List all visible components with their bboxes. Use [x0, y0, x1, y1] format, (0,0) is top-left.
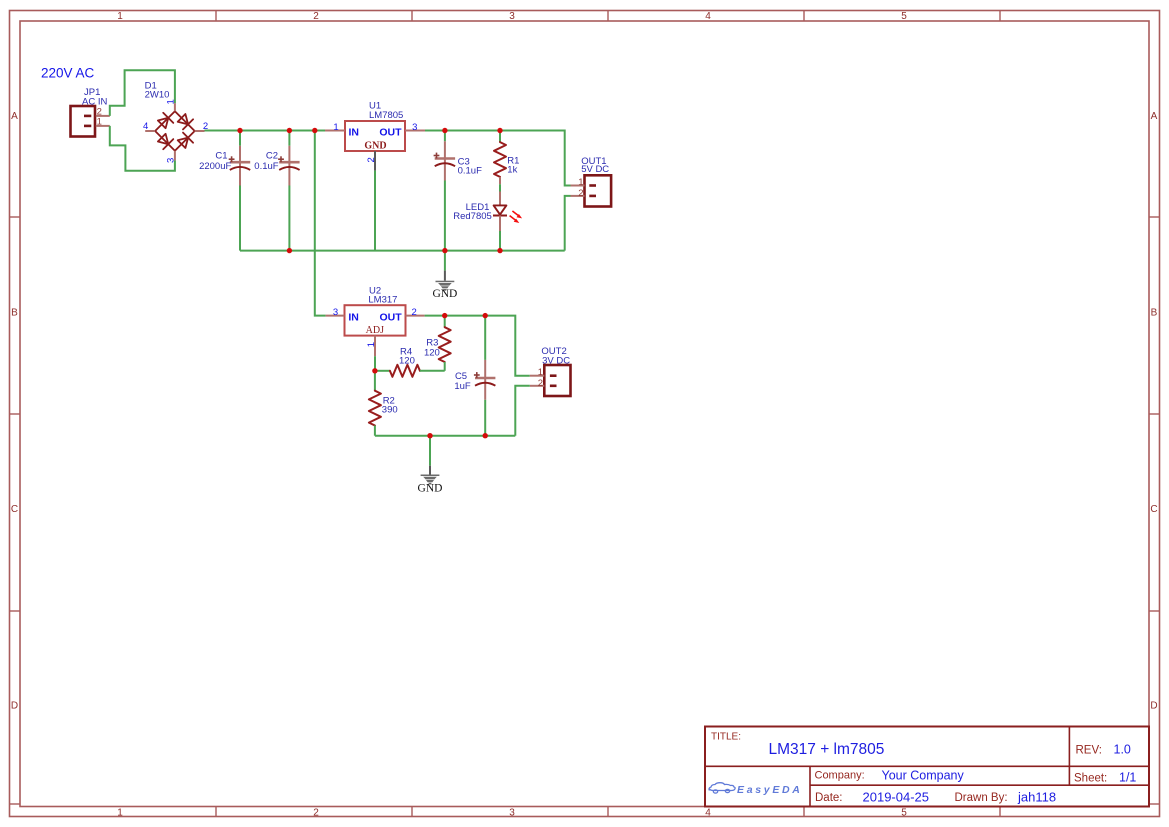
- svg-text:LM7805: LM7805: [369, 110, 403, 121]
- top ruler ticks: [216, 11, 1000, 22]
- title block logo cell divider: [809, 766, 811, 806]
- svg-text:1: 1: [578, 177, 583, 188]
- svg-text:TITLE:: TITLE:: [711, 731, 741, 742]
- wire OUT2 pin2 to ground rail 2: [515, 386, 530, 436]
- svg-text:ADJ: ADJ: [366, 325, 384, 336]
- svg-text:Sheet:: Sheet:: [1074, 772, 1107, 784]
- svg-text:1: 1: [117, 808, 123, 819]
- title block outer border: [705, 727, 1149, 807]
- wire JP1 pin1 to bridge pin3: [110, 126, 175, 171]
- regulator U2 LM317: [345, 305, 406, 336]
- title block rev column divider: [1068, 727, 1070, 786]
- D1 diode top-right (1 to 2): [178, 114, 188, 124]
- svg-text:2200uF: 2200uF: [199, 161, 231, 172]
- svg-text:2019-04-25: 2019-04-25: [863, 789, 930, 804]
- svg-text:1: 1: [117, 11, 123, 22]
- svg-text:LM317 + lm7805: LM317 + lm7805: [769, 741, 885, 758]
- D1 pin 1 stub: [174, 103, 176, 111]
- D1 diode bottom-right (3 to 2): [178, 138, 188, 148]
- EasyEDA logo cloud icon: [709, 783, 735, 793]
- wire OUT1 pin2 to ground rail: [565, 196, 571, 251]
- D1 pin 2 stub: [195, 130, 205, 132]
- svg-text:D: D: [11, 701, 18, 712]
- right ruler letters A-D: [1150, 111, 1157, 712]
- svg-text:IN: IN: [348, 311, 359, 323]
- svg-text:Your Company: Your Company: [882, 768, 965, 782]
- svg-text:120: 120: [399, 356, 415, 367]
- svg-text:C: C: [11, 504, 18, 515]
- connector OUT2 (3V DC): [530, 365, 571, 396]
- svg-text:1/1: 1/1: [1119, 770, 1136, 784]
- svg-text:220V AC: 220V AC: [41, 66, 95, 81]
- top ruler numbers 1-5: [117, 11, 907, 22]
- LED LED1 Red7805: [493, 192, 507, 251]
- D1 diode bottom-left (4 to 3): [158, 134, 168, 144]
- wire ground rail lower: [375, 435, 515, 437]
- U1 pin 2 lead (GND): [374, 151, 376, 171]
- D1 diode top-left (4 to 1): [158, 118, 168, 128]
- svg-text:OUT: OUT: [380, 311, 403, 323]
- svg-text:0.1uF: 0.1uF: [458, 165, 482, 176]
- svg-text:3V DC: 3V DC: [542, 356, 570, 367]
- svg-text:3: 3: [333, 307, 338, 318]
- D1 pin 4 stub: [145, 130, 155, 132]
- svg-text:Date:: Date:: [815, 792, 843, 804]
- connector JP1 (AC IN): [71, 106, 110, 137]
- svg-text:A: A: [11, 111, 18, 122]
- svg-text:4: 4: [143, 121, 148, 132]
- regulator U1 LM7805: [345, 121, 405, 151]
- svg-text:Drawn By:: Drawn By:: [955, 792, 1008, 804]
- svg-text:GND: GND: [432, 288, 457, 300]
- title block row divider 1: [705, 765, 1149, 767]
- svg-text:2: 2: [578, 188, 583, 199]
- resistor R1 1k: [494, 131, 506, 192]
- svg-text:0.1uF: 0.1uF: [254, 161, 278, 172]
- svg-text:4: 4: [705, 808, 711, 819]
- wire JP1 pin2 to bridge pin1: [110, 70, 175, 116]
- svg-text:Company:: Company:: [815, 770, 865, 782]
- junction dots overlay: [237, 128, 502, 439]
- svg-text:B: B: [11, 308, 18, 319]
- svg-text:2W10: 2W10: [145, 90, 170, 101]
- wire U1 pin2 to ground rail: [374, 171, 376, 251]
- svg-text:IN: IN: [349, 126, 360, 138]
- svg-text:1.0: 1.0: [1114, 743, 1131, 757]
- svg-text:2: 2: [313, 808, 319, 819]
- capacitor C2 0.1uF: [278, 131, 300, 251]
- svg-text:5: 5: [901, 11, 907, 22]
- svg-text:2: 2: [313, 11, 319, 22]
- wire R4 left stub: [375, 370, 390, 372]
- capacitor C5 1uF: [474, 316, 496, 436]
- U2 pin 3 lead: [326, 315, 345, 317]
- ground symbol GND lower: [429, 436, 431, 466]
- resistor R4 120: [390, 365, 420, 377]
- left ruler letters A-D: [11, 111, 18, 712]
- bridge rectifier D1 2W10: [155, 111, 195, 151]
- left ruler ticks: [10, 217, 21, 804]
- U1 pin 1 lead: [325, 130, 345, 132]
- svg-text:3: 3: [509, 808, 515, 819]
- svg-text:C: C: [1150, 504, 1157, 515]
- svg-text:5V DC: 5V DC: [581, 164, 609, 175]
- svg-text:1k: 1k: [507, 165, 517, 176]
- svg-text:LM317: LM317: [368, 294, 397, 305]
- wire bridge pin2 to U1 IN rail: [205, 130, 326, 132]
- right ruler ticks: [1149, 217, 1160, 804]
- bottom ruler ticks: [216, 807, 1000, 817]
- svg-text:A: A: [1151, 111, 1158, 122]
- svg-text:B: B: [1151, 308, 1158, 319]
- svg-text:3: 3: [165, 158, 176, 163]
- svg-text:Red7805: Red7805: [453, 211, 492, 222]
- wire U2 OUT to OUT2: [425, 316, 530, 376]
- svg-text:2: 2: [538, 378, 543, 389]
- LED1 light arrow 1: [512, 211, 522, 218]
- svg-text:1uF: 1uF: [454, 381, 471, 392]
- svg-text:5: 5: [901, 808, 907, 819]
- wire U2 ADJ to R4 node: [374, 356, 376, 371]
- svg-text:3: 3: [509, 11, 515, 22]
- svg-text:REV:: REV:: [1076, 745, 1102, 757]
- svg-text:EasyEDA: EasyEDA: [737, 784, 803, 796]
- svg-text:3: 3: [412, 122, 417, 133]
- LED1 light arrow 2: [510, 216, 520, 223]
- svg-text:GND: GND: [418, 483, 443, 495]
- svg-text:2: 2: [412, 307, 417, 318]
- connector OUT1 (5V DC): [571, 175, 612, 206]
- svg-text:390: 390: [382, 405, 398, 416]
- title block row divider 2: [810, 784, 1149, 786]
- svg-text:1: 1: [366, 342, 377, 347]
- svg-text:4: 4: [705, 11, 711, 22]
- resistor R2 390: [369, 371, 381, 436]
- wire ground rail upper: [240, 250, 565, 252]
- resistor R3 120: [439, 316, 451, 371]
- svg-text:120: 120: [424, 348, 440, 359]
- capacitor C1 2200uF: [229, 131, 251, 251]
- ground symbol GND upper: [444, 251, 446, 271]
- svg-text:jah118: jah118: [1017, 789, 1056, 804]
- svg-text:1: 1: [538, 367, 543, 378]
- D1 pin 3 stub: [174, 151, 176, 161]
- wire raw DC branch to U2 IN: [315, 131, 326, 316]
- U2 pin 1 lead (ADJ): [374, 336, 376, 357]
- svg-text:OUT: OUT: [379, 126, 402, 138]
- wire R4 right to R3 bottom: [420, 370, 445, 372]
- svg-text:C1: C1: [215, 151, 227, 162]
- svg-text:GND: GND: [364, 140, 386, 151]
- svg-text:2: 2: [366, 157, 377, 162]
- wire U1 OUT to OUT1: [425, 131, 571, 186]
- U2 pin 2 lead: [406, 315, 425, 317]
- svg-text:AC IN: AC IN: [82, 97, 107, 108]
- svg-text:1: 1: [333, 122, 338, 133]
- svg-text:1: 1: [97, 117, 102, 128]
- bottom ruler numbers 1-5: [117, 808, 907, 819]
- capacitor C3 0.1uF: [434, 131, 456, 251]
- svg-text:D: D: [1150, 701, 1157, 712]
- svg-text:C2: C2: [266, 151, 278, 162]
- U1 pin 3 lead: [405, 130, 425, 132]
